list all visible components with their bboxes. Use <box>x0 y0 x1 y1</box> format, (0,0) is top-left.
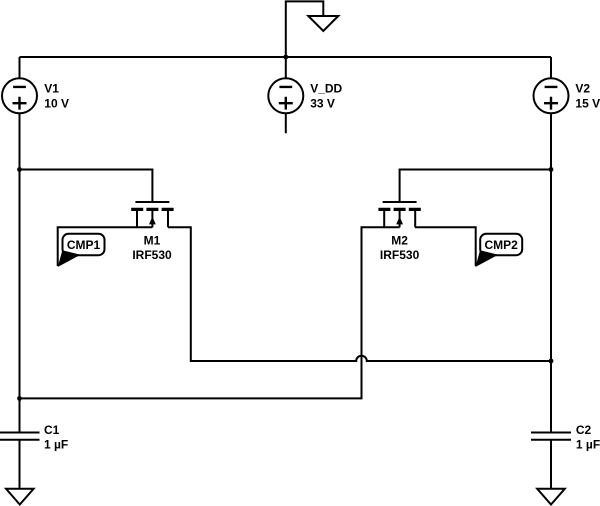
svg-text:CMP1: CMP1 <box>67 238 101 252</box>
svg-text:C1: C1 <box>44 423 60 437</box>
svg-text:10 V: 10 V <box>44 96 69 110</box>
svg-text:CMP2: CMP2 <box>485 238 519 252</box>
svg-text:C2: C2 <box>576 423 592 437</box>
svg-text:1 µF: 1 µF <box>576 438 600 452</box>
svg-text:V1: V1 <box>44 81 59 95</box>
svg-text:V_DD: V_DD <box>310 81 342 95</box>
svg-text:1 µF: 1 µF <box>44 438 68 452</box>
svg-text:15 V: 15 V <box>575 96 600 110</box>
svg-text:V2: V2 <box>575 81 590 95</box>
svg-text:M1: M1 <box>144 234 161 248</box>
svg-text:IRF530: IRF530 <box>132 248 172 262</box>
svg-text:M2: M2 <box>391 234 408 248</box>
svg-text:IRF530: IRF530 <box>380 248 420 262</box>
svg-text:33 V: 33 V <box>310 96 335 110</box>
